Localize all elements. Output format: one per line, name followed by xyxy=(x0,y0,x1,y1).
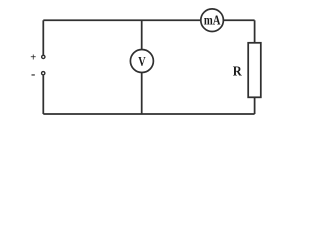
wire top-right segment xyxy=(223,19,254,21)
svg-text:R: R xyxy=(233,64,243,79)
terminal - (open circle) xyxy=(42,72,45,75)
svg-text:-: - xyxy=(31,66,35,81)
svg-text:mA: mA xyxy=(204,12,221,27)
milliammeter mA circle xyxy=(201,9,224,32)
wire right lower segment xyxy=(254,97,256,114)
svg-text:+: + xyxy=(30,52,36,63)
wire voltmeter lower branch xyxy=(141,72,143,114)
wire left upper segment xyxy=(42,20,44,54)
wire voltmeter upper branch xyxy=(141,20,143,50)
voltmeter V circle xyxy=(130,50,153,73)
resistor R body xyxy=(248,43,261,98)
wire right upper segment xyxy=(254,20,256,43)
wire left lower segment xyxy=(42,75,44,114)
terminal + (open circle) xyxy=(42,55,45,58)
wire top-left segment xyxy=(43,19,201,21)
wire bottom segment xyxy=(43,113,254,115)
svg-text:V: V xyxy=(138,54,146,69)
